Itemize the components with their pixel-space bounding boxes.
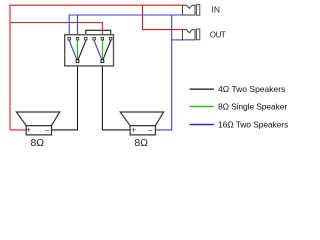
wire red to speaker SP1 plus — [10, 129, 26, 131]
wire red bus to terminal 5 — [10, 23, 102, 39]
link black terminal 3 to B1 — [78, 41, 86, 60]
jack IN tip — [197, 5, 200, 16]
speaker SP1 — [16, 112, 60, 135]
link blue terminal 4 to B2 — [94, 41, 102, 60]
link black terminal 6 to B2 — [103, 41, 111, 60]
wire black bottom terminal B1 to speaker SP1 minus — [52, 62, 78, 130]
wire black jumper terminal 3 to terminal 6 — [86, 30, 111, 39]
wire blue IN jack to terminal 1 — [69, 15, 182, 38]
svg-text:16Ω Two Speakers: 16Ω Two Speakers — [218, 119, 288, 129]
jack OUT tip — [197, 29, 200, 40]
wire black bottom terminal B2 to speaker SP2 plus — [102, 62, 130, 130]
jack IN body — [182, 5, 195, 15]
legend line 16 ohm (blue) — [190, 124, 215, 126]
wire blue vertical from IN line down to speaker SP2 minus — [154, 15, 172, 130]
wire red top bus (left vertical + top horizontal to IN jack) — [10, 5, 182, 130]
terminal 2 — [76, 38, 78, 40]
legend line 4 ohm (black) — [190, 88, 215, 90]
svg-text:+: + — [131, 124, 136, 134]
wire blue tee down to terminal 2 — [77, 15, 79, 38]
svg-text:8Ω Single Speaker: 8Ω Single Speaker — [218, 101, 287, 111]
terminal 4 — [93, 38, 95, 40]
svg-text:IN: IN — [212, 4, 221, 14]
bottom terminal B1 — [76, 60, 79, 63]
jack OUT body — [182, 30, 195, 40]
svg-text:8Ω: 8Ω — [134, 137, 148, 149]
link blue terminal 1 to B1 — [69, 41, 77, 60]
legend line 8 ohm (green) — [190, 105, 215, 107]
switch block body — [65, 35, 114, 66]
speaker SP2 — [120, 112, 164, 135]
wire red tee down to OUT jack — [143, 5, 183, 29]
terminal 3 — [85, 38, 87, 40]
terminal 6 — [110, 38, 112, 40]
terminal 5 — [101, 38, 103, 40]
svg-text:4Ω Two Speakers: 4Ω Two Speakers — [218, 84, 285, 94]
terminal 1 — [68, 38, 70, 40]
bottom terminal B2 — [101, 60, 104, 63]
svg-text:OUT: OUT — [210, 31, 226, 40]
link green terminal 5 to B2 — [101, 41, 103, 60]
wire blue stub OUT jack — [172, 39, 183, 41]
svg-text:8Ω: 8Ω — [30, 137, 44, 149]
link green terminal 2 to B1 — [77, 41, 79, 60]
svg-text:+: + — [26, 124, 31, 134]
